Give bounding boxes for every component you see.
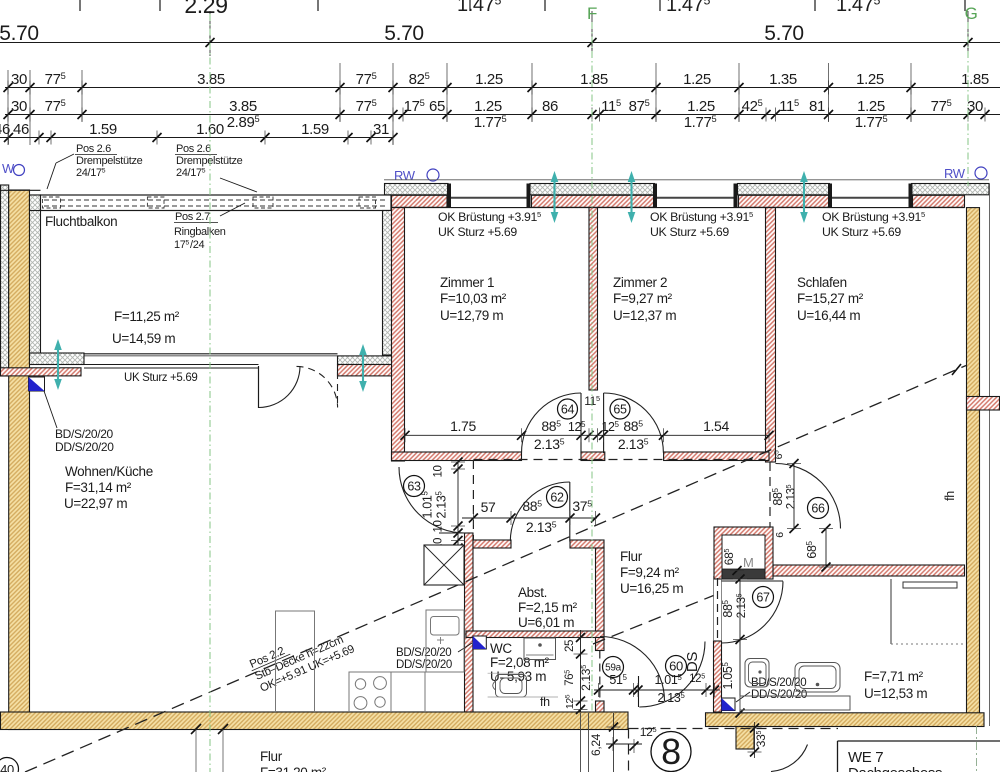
svg-text:5.70: 5.70 xyxy=(384,22,423,45)
bottom wall right segment xyxy=(706,713,985,727)
door 67 circle xyxy=(753,587,774,608)
svg-text:3.85: 3.85 xyxy=(197,71,225,88)
svg-text:RW: RW xyxy=(944,166,966,181)
balcony east insulation strip xyxy=(383,211,392,356)
bottom wall step down block xyxy=(736,727,754,750)
svg-text:1.25: 1.25 xyxy=(475,71,503,88)
svg-text:U=6,01 m: U=6,01 m xyxy=(518,615,574,630)
svg-text:U=22,97 m: U=22,97 m xyxy=(64,496,127,511)
svg-text:U=12,79 m: U=12,79 m xyxy=(440,308,503,323)
WC faint lines xyxy=(488,672,524,674)
dim door 62 horizontal xyxy=(462,498,600,535)
svg-text:/24: /24 xyxy=(190,239,204,251)
dim door 67 vertical xyxy=(721,575,748,718)
dim row 2 line and labels xyxy=(4,71,1000,95)
kitchen wall corner xyxy=(465,533,474,712)
svg-text:F=2,15 m²: F=2,15 m² xyxy=(518,600,578,615)
bath west wall xyxy=(714,641,722,712)
svg-text:Flur: Flur xyxy=(260,749,283,764)
shaft M bottom filled xyxy=(722,569,765,579)
door 64 circle xyxy=(558,399,578,419)
svg-text:64: 64 xyxy=(561,403,575,417)
Abst south wall xyxy=(466,631,604,638)
window arrow balcony door xyxy=(362,352,364,384)
svg-text:BD/S/20/20: BD/S/20/20 xyxy=(396,647,451,659)
BD/S marker kitchen xyxy=(473,636,487,649)
door 59a circle xyxy=(603,657,624,678)
Pos 2.7 Ringbalken label xyxy=(174,203,245,251)
bath north wall xyxy=(773,565,965,576)
svg-text:DD/S/20/20: DD/S/20/20 xyxy=(751,689,807,701)
svg-text:10: 10 xyxy=(433,465,445,477)
door 62 xyxy=(569,482,571,542)
svg-text:1.54: 1.54 xyxy=(703,418,729,434)
svg-text:Abst.: Abst. xyxy=(518,585,547,600)
bath mirror and partition xyxy=(903,582,957,588)
door 63 circle xyxy=(404,476,425,497)
svg-text:Dachgeschoss: Dachgeschoss xyxy=(848,765,942,772)
svg-text:F=9,27 m²: F=9,27 m² xyxy=(613,291,673,306)
svg-text:Fluchtbalkon: Fluchtbalkon xyxy=(45,214,117,229)
svg-text:U=5,93 m: U=5,93 m xyxy=(490,669,546,684)
svg-text:fh: fh xyxy=(943,491,957,501)
wall west of Zimmer 1 xyxy=(392,208,405,461)
top wall inner face line xyxy=(392,207,965,209)
svg-text:F=11,25 m²: F=11,25 m² xyxy=(114,309,180,324)
svg-text:1.25: 1.25 xyxy=(474,98,502,115)
svg-text:Wohnen/Küche: Wohnen/Küche xyxy=(65,464,153,479)
BD/S marker bath xyxy=(722,698,736,711)
window W3 xyxy=(828,184,832,208)
svg-text:Schlafen: Schlafen xyxy=(797,275,847,290)
entrance door 8 arc xyxy=(771,745,808,772)
Abst east wall xyxy=(596,548,605,636)
kitchen stove xyxy=(349,672,391,712)
balcony parapet corner hatch xyxy=(30,195,41,211)
svg-text:66: 66 xyxy=(811,502,825,516)
window arrow left wall xyxy=(57,347,59,382)
door 59a dashed opening xyxy=(599,651,601,702)
vertical connectors between dim rows xyxy=(8,63,911,145)
dim door 66 vertical xyxy=(771,450,801,538)
svg-text:30: 30 xyxy=(11,98,27,115)
svg-text:10: 10 xyxy=(433,520,445,532)
door 60 xyxy=(638,676,640,707)
svg-text:1.85: 1.85 xyxy=(580,71,608,88)
svg-text:F=7,71 m²: F=7,71 m² xyxy=(864,669,924,684)
svg-text:Drempelstütze: Drempelstütze xyxy=(76,155,143,167)
dim 12.5 lower flur xyxy=(606,725,656,753)
svg-text:W: W xyxy=(2,161,15,176)
right outer wall outer face line xyxy=(989,184,991,727)
svg-text:M: M xyxy=(743,555,753,570)
svg-text:57: 57 xyxy=(481,499,496,515)
BD/S marker balcony corner xyxy=(29,377,45,391)
top wall masonry band segments xyxy=(392,195,448,207)
svg-text:46: 46 xyxy=(13,121,29,138)
kitchen tall cabinet xyxy=(276,611,315,712)
kitchen top wall segment xyxy=(473,540,511,548)
south wall of Zimmer 2 segment xyxy=(664,452,769,461)
svg-text:8: 8 xyxy=(661,731,681,772)
door 66 xyxy=(776,464,841,529)
svg-text:1.59: 1.59 xyxy=(301,121,329,138)
svg-text:F=9,24 m²: F=9,24 m² xyxy=(620,565,680,580)
svg-text:1.25: 1.25 xyxy=(856,71,884,88)
svg-text:24/175: 24/175 xyxy=(176,167,206,179)
grid axis F line at x=592 xyxy=(591,22,593,712)
svg-text:F=10,03 m²: F=10,03 m² xyxy=(440,291,507,306)
south wall pier between doors 64 and 65 xyxy=(581,452,605,461)
left outer wall masonry xyxy=(9,190,30,730)
svg-text:1.25: 1.25 xyxy=(683,71,711,88)
dim WC vertical column xyxy=(563,630,593,714)
svg-text:BD/S/20/20: BD/S/20/20 xyxy=(55,427,114,441)
balcony parapet xyxy=(41,195,392,211)
svg-text:67: 67 xyxy=(756,591,770,605)
left wall top cap line xyxy=(0,189,41,191)
svg-text:24/175: 24/175 xyxy=(76,167,106,179)
right neighbour wall stub xyxy=(967,397,1000,411)
bath basin 2 xyxy=(795,663,840,693)
svg-text:DD/S/20/20: DD/S/20/20 xyxy=(396,659,452,671)
svg-text:Pos 2.7: Pos 2.7 xyxy=(175,211,210,223)
window arrow top 3 xyxy=(803,179,805,215)
top wall insulation band segments xyxy=(385,184,449,195)
svg-text:30: 30 xyxy=(11,71,27,88)
svg-text:F=2,08 m²: F=2,08 m² xyxy=(490,655,550,670)
window W2 xyxy=(653,184,657,208)
dim door 60 horizontal xyxy=(594,672,720,705)
svg-text:Ringbalken: Ringbalken xyxy=(174,226,226,238)
svg-text:6,24: 6,24 xyxy=(589,733,603,756)
svg-text:62: 62 xyxy=(550,491,564,505)
door 59a xyxy=(600,637,665,702)
dim door 63 vertical xyxy=(421,458,466,553)
svg-text:F=15,27 m²: F=15,27 m² xyxy=(797,291,864,306)
svg-text:65: 65 xyxy=(429,98,445,115)
window arrow top 2 xyxy=(630,179,632,215)
hall north dashed edge xyxy=(474,459,766,461)
door 67 xyxy=(722,580,784,582)
door 67 dashed opening xyxy=(717,578,719,641)
svg-text:UK Sturz +5.69: UK Sturz +5.69 xyxy=(124,372,197,384)
dim row 4 line and labels xyxy=(0,121,398,145)
main roof slope dashed diagonal xyxy=(25,366,966,772)
WC wall basin xyxy=(524,638,556,660)
svg-text:UK Sturz +5.69: UK Sturz +5.69 xyxy=(822,225,901,239)
dim 6.24 lower flur xyxy=(589,713,621,772)
left outer wall insulation strip xyxy=(1,185,9,376)
svg-text:OK Brüstung +3.915: OK Brüstung +3.915 xyxy=(822,210,925,224)
svg-text:59a: 59a xyxy=(605,663,621,674)
door 65 circle xyxy=(610,399,630,419)
Pos 2.6 Drempelstuetze label 2 xyxy=(175,143,257,192)
door 63 xyxy=(399,467,465,533)
Pos 2.2 Stb-Decke rotated label xyxy=(247,619,356,695)
svg-text:Zimmer 1: Zimmer 1 xyxy=(440,275,494,290)
kitchen counter xyxy=(391,672,425,712)
svg-text:5.70: 5.70 xyxy=(0,22,39,45)
door 64 xyxy=(580,393,582,453)
svg-text:1.25: 1.25 xyxy=(687,98,715,115)
hall top wall segment east of door 62 xyxy=(570,540,604,548)
svg-text:5.70: 5.70 xyxy=(764,22,803,45)
dash-dot line bottom right xyxy=(976,726,978,772)
circle 40 xyxy=(0,758,19,772)
svg-text:Pos 2.6: Pos 2.6 xyxy=(76,143,111,155)
bath basin 1 xyxy=(745,659,769,688)
balcony south wall hatch right piece xyxy=(338,356,392,365)
bath counter xyxy=(740,696,850,710)
svg-text:DS: DS xyxy=(684,652,701,672)
svg-text:63: 63 xyxy=(407,480,421,494)
svg-text:U=12,53 m: U=12,53 m xyxy=(864,686,927,701)
bottom wall left segment xyxy=(1,712,629,730)
Pos 2.6 Drempelstuetze label 1 xyxy=(47,143,143,189)
balcony double door xyxy=(258,366,260,408)
svg-text:OK Brüstung +3.915: OK Brüstung +3.915 xyxy=(438,210,541,224)
WC east wall upper stub xyxy=(596,638,605,651)
door 66 dashed opening xyxy=(769,462,771,527)
dim line Zimmer south 1.75 xyxy=(401,394,774,452)
window W1 xyxy=(447,184,451,208)
svg-text:F=31,14 m²: F=31,14 m² xyxy=(65,480,132,495)
svg-text:1.85: 1.85 xyxy=(961,71,989,88)
door 60 circle xyxy=(666,656,687,677)
svg-text:46: 46 xyxy=(0,121,10,138)
dim 68.5 shaft M xyxy=(722,549,744,575)
svg-text:81: 81 xyxy=(809,98,825,115)
grid axis G line at x=968 xyxy=(967,22,969,186)
svg-text:30: 30 xyxy=(967,98,983,115)
svg-text:UK Sturz +5.69: UK Sturz +5.69 xyxy=(438,225,517,239)
circle 8 apartment number xyxy=(651,732,691,772)
right outer wall masonry xyxy=(967,208,980,727)
svg-text:1.25: 1.25 xyxy=(857,98,885,115)
dim 68.5 below door 66 xyxy=(805,524,833,572)
svg-text:U=16,25 m: U=16,25 m xyxy=(620,581,683,596)
hall west dashed edge xyxy=(472,460,474,540)
svg-text:RW: RW xyxy=(394,168,416,183)
south wall of Zimmer 1 segment xyxy=(392,452,522,461)
balcony south wall red piece left xyxy=(1,368,82,376)
svg-text:Pos 2.6: Pos 2.6 xyxy=(176,143,211,155)
svg-text:G: G xyxy=(965,4,978,23)
WC toilet xyxy=(496,675,527,698)
WE 7 box xyxy=(838,740,1000,742)
door ticks in bottom wall xyxy=(191,724,201,734)
svg-text:Zimmer 2: Zimmer 2 xyxy=(613,275,667,290)
svg-text:U=16,44 m: U=16,44 m xyxy=(797,308,860,323)
dim 33.5 bottom right xyxy=(748,722,769,758)
svg-text:DD/S/20/20: DD/S/20/20 xyxy=(55,440,114,454)
svg-text:WE 7: WE 7 xyxy=(848,749,883,766)
svg-text:2.29: 2.29 xyxy=(184,0,227,18)
svg-text:86: 86 xyxy=(542,98,558,115)
svg-text:40: 40 xyxy=(0,762,14,772)
svg-text:Flur: Flur xyxy=(620,549,643,564)
svg-text:WC: WC xyxy=(490,641,512,656)
svg-text:U=12,37 m: U=12,37 m xyxy=(613,308,676,323)
dim row 3 line and labels xyxy=(4,98,1000,131)
hall roof slope dashed diagonal segment DS xyxy=(593,596,714,645)
svg-text:1.75: 1.75 xyxy=(450,418,476,434)
grid axis line at x=210 xyxy=(209,14,211,772)
wall between Zimmer 1 and Zimmer 2 xyxy=(589,208,598,390)
door 62 circle xyxy=(547,487,568,508)
svg-text:1.35: 1.35 xyxy=(769,71,797,88)
door 66 circle xyxy=(808,498,829,519)
WC east wall lower stub xyxy=(596,701,605,712)
svg-text:25: 25 xyxy=(564,640,576,652)
dim row 0 top ticks and labels xyxy=(80,0,965,18)
svg-text:60: 60 xyxy=(669,659,683,674)
kitchen sink unit xyxy=(426,610,464,672)
wall between Zimmer 2 and Schlafen xyxy=(766,208,776,462)
balcony south wall lines xyxy=(84,353,338,355)
svg-text:OK Brüstung +3.915: OK Brüstung +3.915 xyxy=(650,210,753,224)
door 65 xyxy=(603,393,605,453)
shaft M xyxy=(714,527,773,579)
svg-text:3.85: 3.85 xyxy=(229,98,257,115)
svg-text:6: 6 xyxy=(774,532,786,538)
svg-text:UK Sturz +5.69: UK Sturz +5.69 xyxy=(650,225,729,239)
balcony south wall corner hatch left xyxy=(30,353,85,365)
svg-text:65: 65 xyxy=(613,403,627,417)
dim row 1 line 5.70 spans xyxy=(0,11,1000,56)
window arrow top 1 xyxy=(553,179,555,215)
svg-text:1.59: 1.59 xyxy=(89,121,117,138)
svg-text:31: 31 xyxy=(373,121,389,138)
kitchen shaft box with X xyxy=(424,545,464,585)
lower flur wall lines xyxy=(580,713,582,772)
top wall outer face line xyxy=(384,179,989,181)
svg-text:F=31,20 m²: F=31,20 m² xyxy=(260,765,327,772)
svg-text:U=14,59 m: U=14,59 m xyxy=(112,331,175,346)
left balcony inner insulation xyxy=(30,195,41,364)
entrance dashed lobby lines xyxy=(629,728,839,730)
svg-text:F: F xyxy=(587,4,597,23)
svg-text:Drempelstütze: Drempelstütze xyxy=(176,155,243,167)
